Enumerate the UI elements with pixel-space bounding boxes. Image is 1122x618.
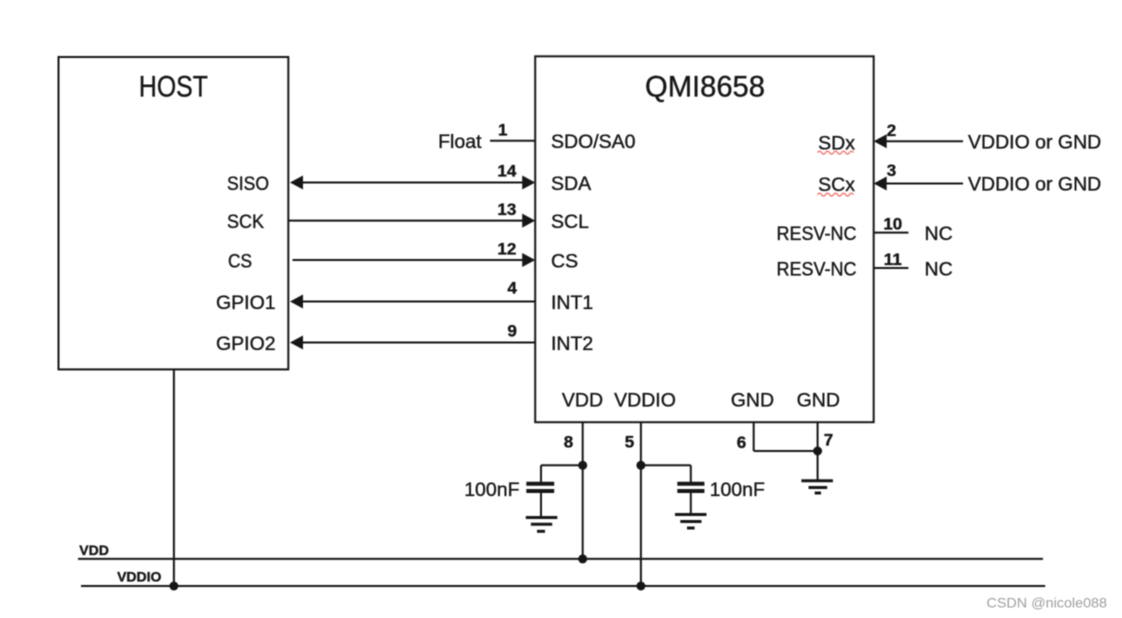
svg-text:VDD: VDD: [562, 390, 603, 412]
svg-text:SDA: SDA: [551, 173, 591, 195]
svg-text:4: 4: [507, 279, 517, 298]
svg-text:Float: Float: [438, 131, 482, 153]
svg-text:GPIO1: GPIO1: [216, 292, 276, 314]
svg-text:INT1: INT1: [551, 292, 593, 314]
svg-text:SCK: SCK: [227, 211, 264, 233]
svg-text:GND: GND: [797, 390, 840, 412]
svg-text:RESV-NC: RESV-NC: [777, 223, 857, 245]
svg-text:SDx: SDx: [818, 132, 855, 154]
svg-text:12: 12: [497, 240, 516, 259]
svg-text:VDDIO or GND: VDDIO or GND: [968, 174, 1101, 196]
svg-text:CS: CS: [228, 251, 252, 273]
svg-text:100nF: 100nF: [710, 479, 765, 501]
svg-text:GND: GND: [731, 390, 774, 412]
svg-text:VDDIO: VDDIO: [117, 569, 161, 585]
svg-text:10: 10: [883, 215, 902, 234]
svg-text:14: 14: [497, 162, 516, 181]
svg-text:GPIO2: GPIO2: [216, 333, 276, 355]
svg-text:13: 13: [497, 200, 516, 219]
svg-text:RESV-NC: RESV-NC: [777, 258, 857, 280]
svg-text:CS: CS: [551, 250, 578, 272]
svg-text:SISO: SISO: [227, 173, 269, 195]
svg-text:QMI8658: QMI8658: [645, 71, 765, 104]
svg-text:6: 6: [737, 433, 746, 452]
svg-text:SCL: SCL: [551, 211, 589, 233]
svg-text:SCx: SCx: [818, 174, 855, 196]
svg-text:3: 3: [887, 161, 896, 180]
svg-text:CSDN @nicole088: CSDN @nicole088: [987, 595, 1108, 611]
svg-text:VDDIO or GND: VDDIO or GND: [968, 131, 1101, 153]
svg-text:8: 8: [564, 433, 573, 452]
svg-text:100nF: 100nF: [464, 479, 519, 501]
svg-text:INT2: INT2: [551, 333, 593, 355]
svg-text:7: 7: [824, 431, 833, 450]
svg-text:HOST: HOST: [139, 71, 208, 104]
svg-text:VDDIO: VDDIO: [614, 390, 676, 412]
svg-text:5: 5: [625, 433, 634, 452]
svg-text:VDD: VDD: [79, 542, 109, 558]
svg-text:9: 9: [507, 322, 516, 341]
svg-text:11: 11: [884, 250, 902, 269]
svg-text:NC: NC: [925, 223, 953, 245]
svg-text:NC: NC: [925, 258, 953, 280]
svg-text:1: 1: [498, 121, 507, 140]
svg-text:2: 2: [887, 121, 896, 140]
svg-text:SDO/SA0: SDO/SA0: [551, 131, 636, 153]
